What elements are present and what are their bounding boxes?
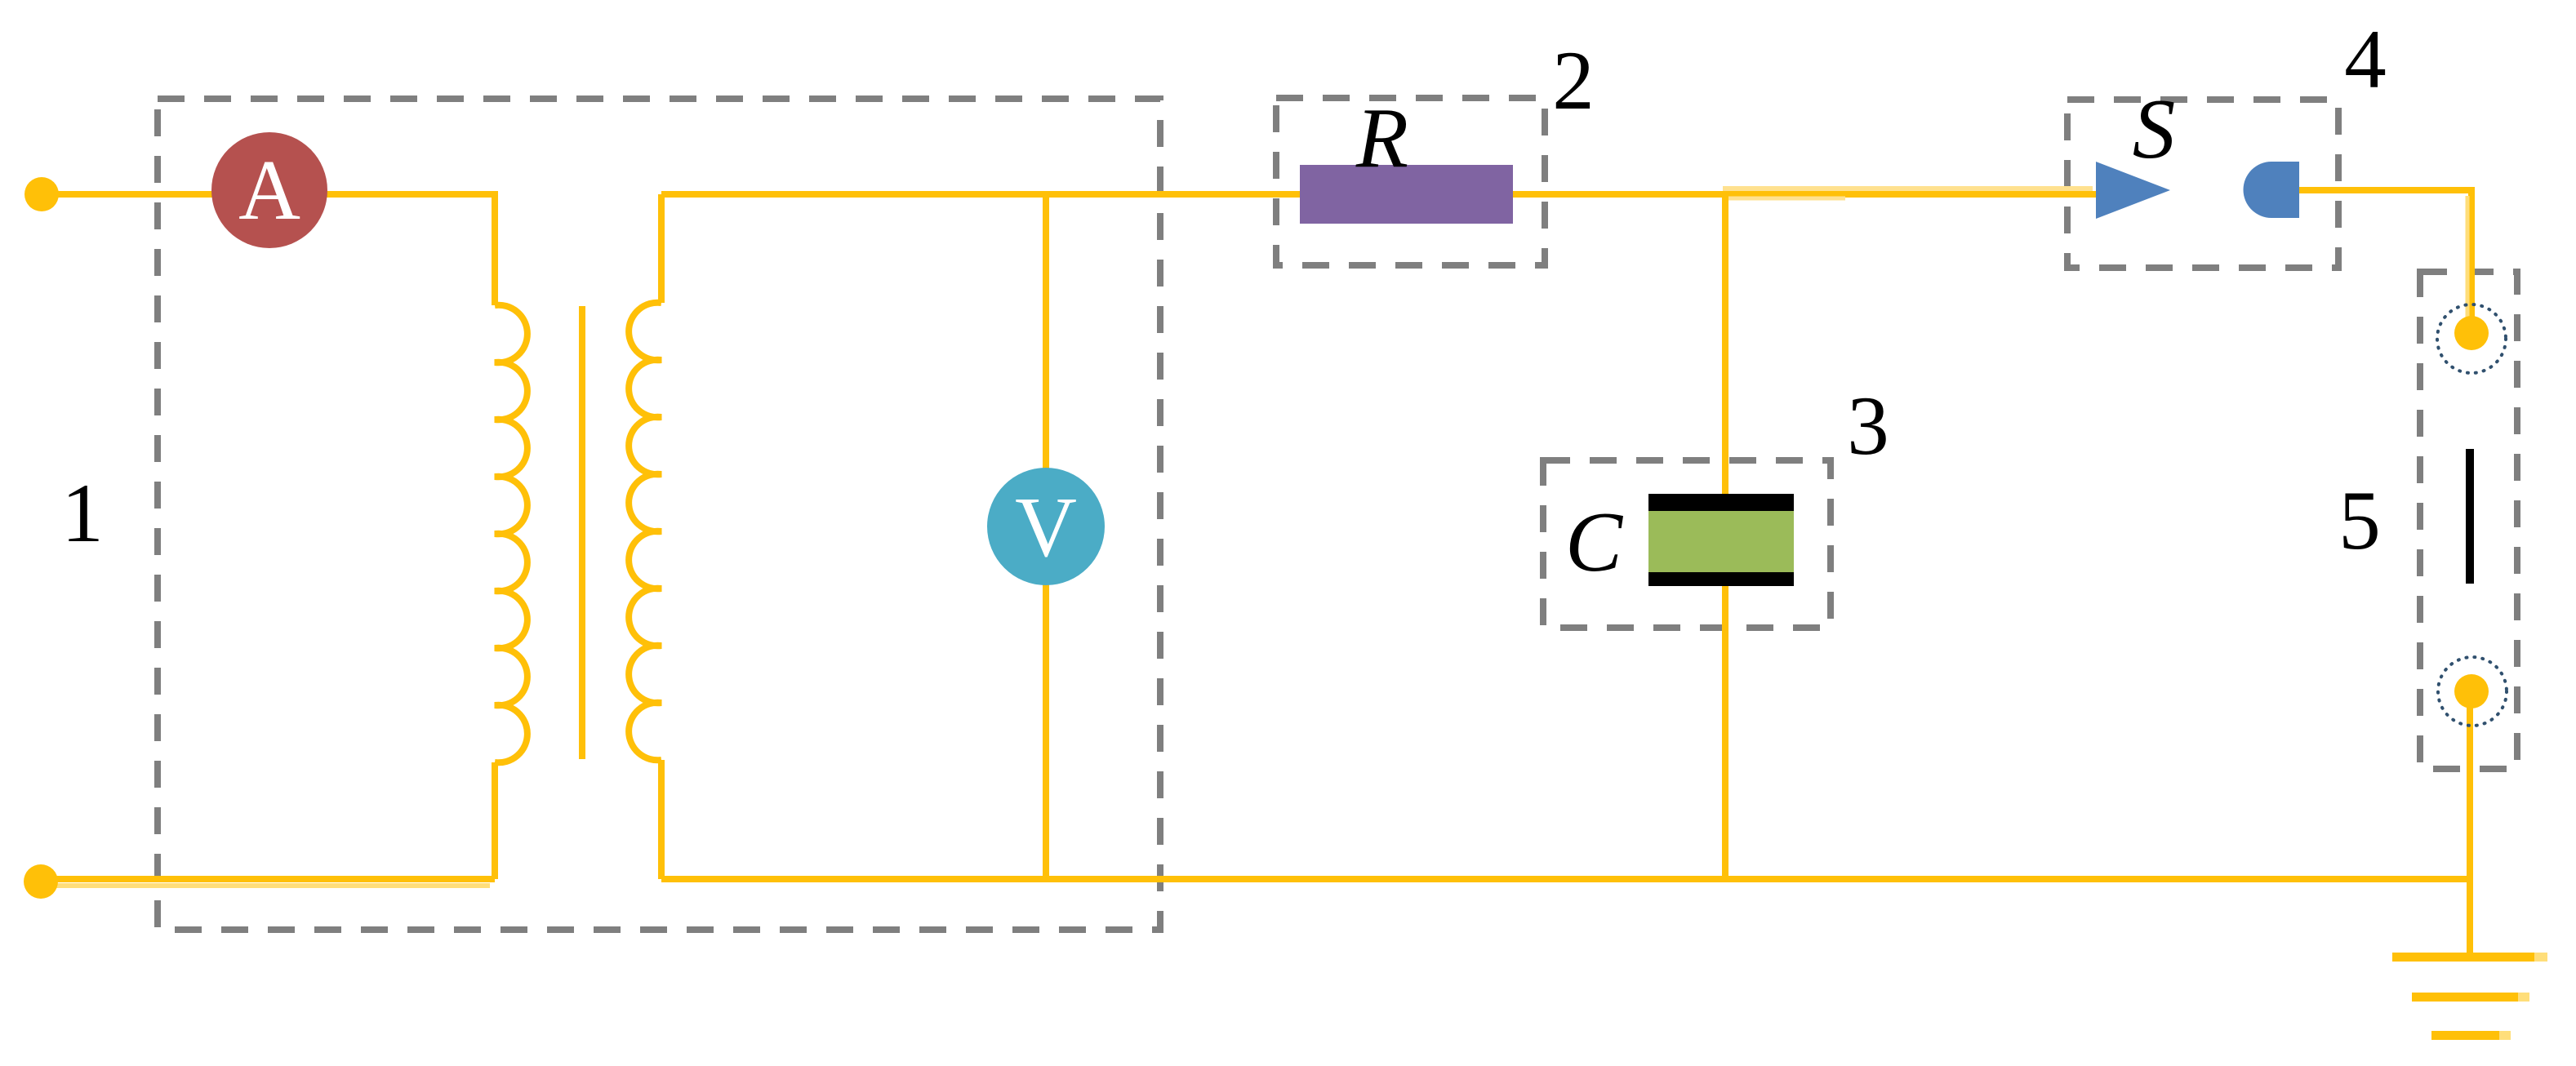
- wire: primary bottom lead: [492, 762, 498, 879]
- input terminal top: [24, 177, 59, 211]
- transformer core: [579, 306, 585, 759]
- wire: left input to primary top: [42, 194, 495, 305]
- svg-text:5: 5: [2338, 474, 2381, 567]
- dashed box 3 (capacitor block): [1543, 460, 1831, 628]
- svg-text:4: 4: [2344, 13, 2387, 106]
- wire: secondary top lead: [658, 194, 665, 303]
- ground symbol: [2392, 953, 2547, 962]
- wire: switch output to gap terminal: [2299, 190, 2471, 336]
- wire: bottom-left rail: [41, 876, 495, 882]
- svg-text:V: V: [1015, 479, 1077, 575]
- svg-text:C: C: [1565, 494, 1624, 589]
- dashed box 4 (switch block): [2067, 100, 2338, 268]
- wire: bottom rail: [661, 876, 2470, 882]
- dashed box 5 (spark gap block): [2420, 272, 2517, 769]
- wire: light overlay on bottom-left rail: [49, 883, 490, 888]
- dashed box 2 (resistor block): [1276, 98, 1545, 265]
- input terminal bottom: [24, 864, 58, 899]
- svg-text:2: 2: [1552, 34, 1595, 127]
- wire: capacitor branch lower: [1722, 585, 1728, 879]
- resistor R body: [1300, 165, 1513, 224]
- wire: light overlay above top gap terminal: [2466, 196, 2470, 318]
- wire: light overlay junction to switch: [1723, 186, 2093, 191]
- wire: top rail secondary to switch: [661, 191, 2096, 198]
- spark gap upper terminal: [2437, 304, 2506, 373]
- transformer secondary winding L2: [629, 303, 661, 761]
- wire: capacitor branch upper: [1722, 194, 1728, 497]
- spark gap electrode: [2466, 449, 2474, 584]
- ammeter A: [211, 132, 327, 248]
- switch S fixed contact: [2244, 162, 2300, 218]
- spark gap lower terminal: [2438, 657, 2507, 726]
- svg-text:3: 3: [1847, 380, 1889, 473]
- switch S moving contact: [2096, 162, 2170, 219]
- transformer primary winding L1: [495, 305, 527, 763]
- wire: voltmeter branch: [1043, 194, 1049, 879]
- svg-text:R: R: [1355, 90, 1408, 185]
- capacitor C plates: [1648, 494, 1794, 511]
- wire: secondary bottom lead: [658, 760, 665, 879]
- svg-text:S: S: [2133, 81, 2176, 176]
- svg-text:1: 1: [61, 467, 104, 560]
- svg-text:A: A: [238, 142, 300, 238]
- voltmeter V: [987, 468, 1105, 585]
- wire: lower gap terminal to ground: [2467, 691, 2473, 957]
- dashed box 1 (source block): [158, 99, 1160, 930]
